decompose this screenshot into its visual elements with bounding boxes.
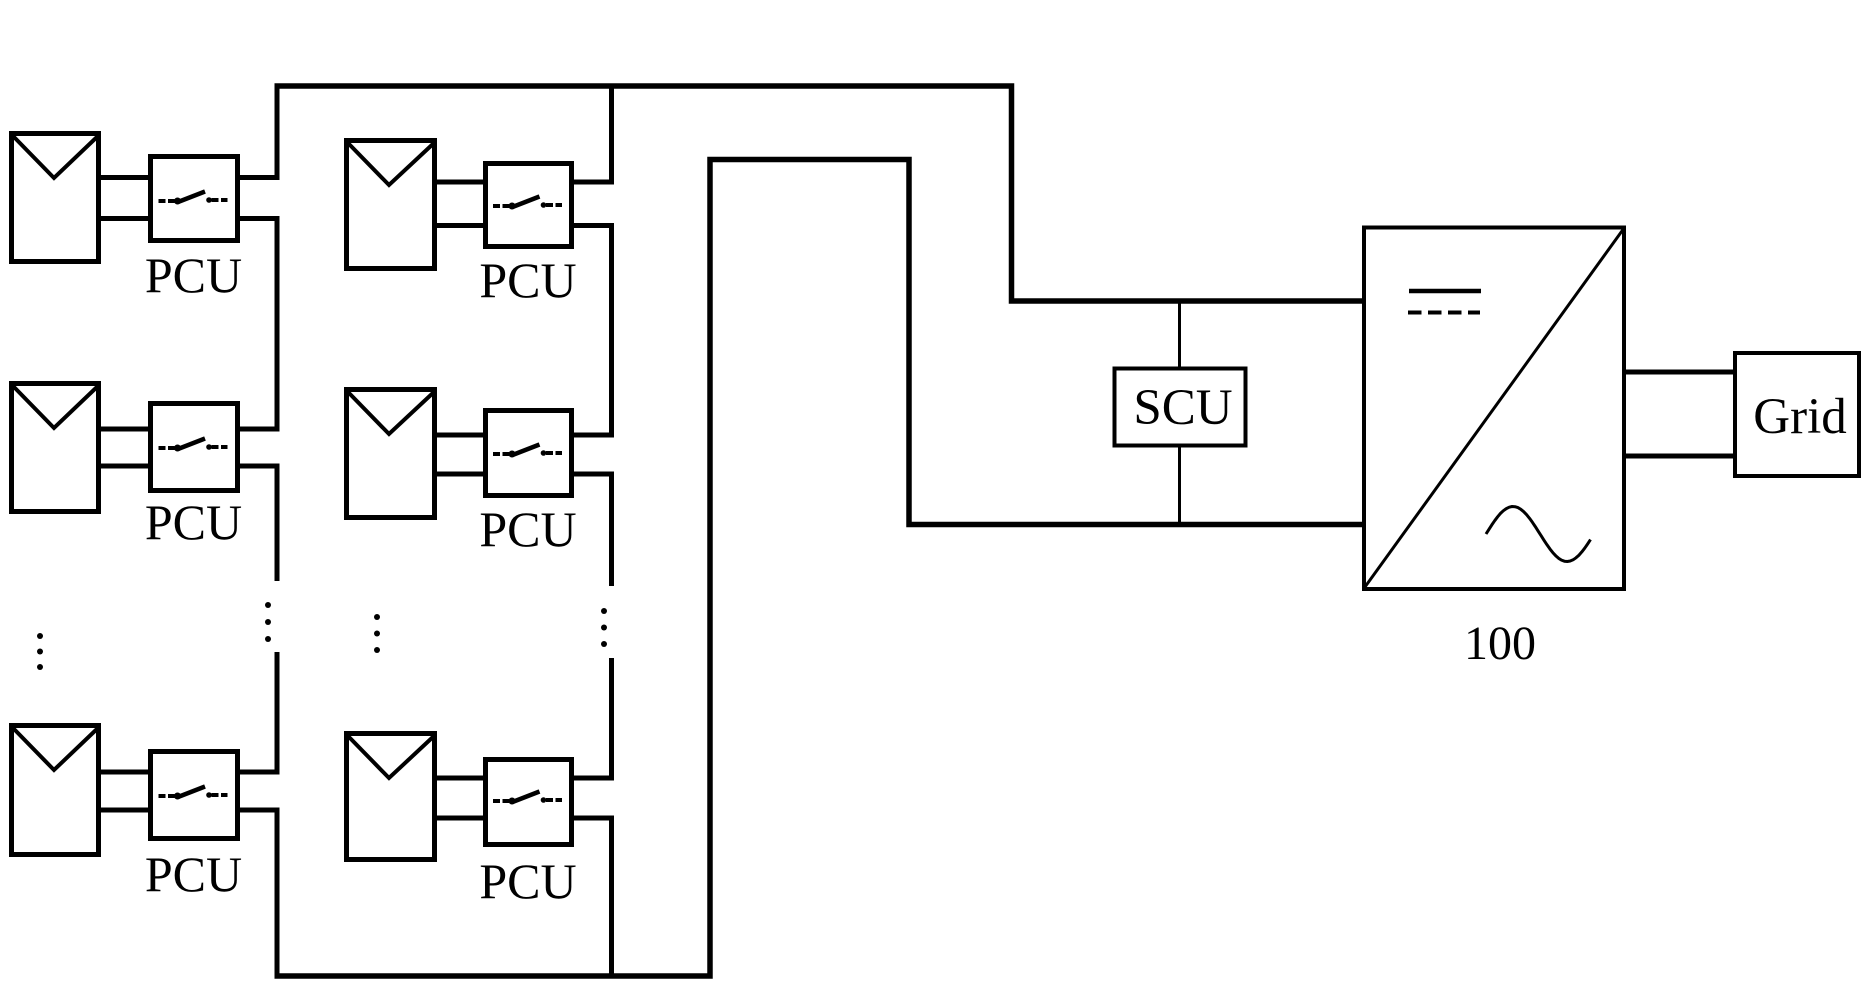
svg-text:Grid: Grid [1753, 389, 1846, 445]
svg-text:PCU: PCU [479, 853, 576, 909]
svg-text:PCU: PCU [145, 846, 242, 902]
svg-text:100: 100 [1464, 617, 1536, 670]
svg-text:SCU: SCU [1133, 380, 1232, 436]
svg-text:PCU: PCU [145, 247, 242, 303]
svg-text:PCU: PCU [479, 252, 576, 308]
svg-text:PCU: PCU [479, 501, 576, 557]
svg-text:PCU: PCU [145, 494, 242, 550]
